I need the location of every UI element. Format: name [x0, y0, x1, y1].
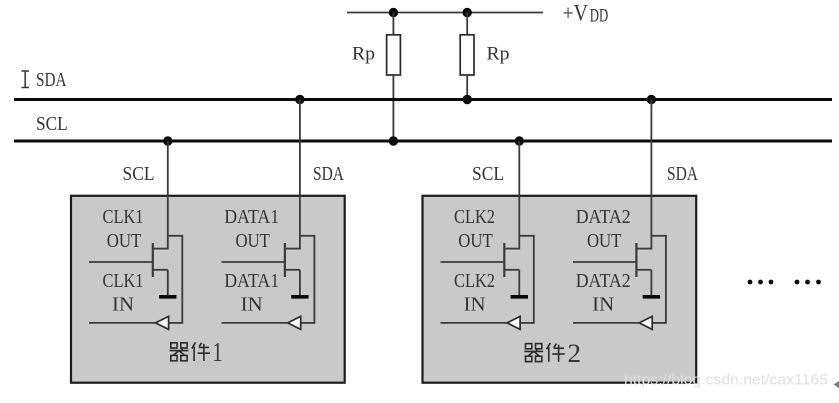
svg-text:CLK2: CLK2: [454, 207, 495, 228]
wire: CLK1 IN lead: [89, 322, 156, 324]
svg-text:IN: IN: [241, 294, 263, 315]
svg-text:CLK2: CLK2: [454, 271, 495, 292]
label CLK1 IN: [103, 271, 144, 316]
buffer U (DATA2 IN receiver triangle): [639, 316, 652, 329]
device box 器件1: [71, 196, 345, 383]
label DATA1 OUT: [224, 207, 279, 252]
wire: rail to buffer input (CLK2): [520, 322, 535, 324]
wire: input-buffer right rail (DATA2): [665, 235, 667, 323]
transistor Q (CLK2 open-drain MOSFET): [504, 243, 519, 295]
wire: SDA bus drop to DATA2 transistor drain: [650, 100, 652, 250]
label CLK2 OUT: [454, 207, 495, 252]
svg-text:SDA: SDA: [667, 164, 698, 185]
wire: drain stub to input-buffer rail (DATA1): [300, 235, 315, 237]
label DATA2 IN: [576, 271, 631, 316]
svg-text:SDA: SDA: [313, 164, 344, 185]
wire: rail to buffer input (DATA2): [652, 322, 667, 324]
resistor Rp (right, pull-up for SDA): [460, 35, 474, 75]
transistor Q (DATA2 open-drain MOSFET): [636, 243, 651, 295]
svg-text:IN: IN: [464, 294, 486, 315]
watermark cursor arrow: [834, 381, 839, 388]
ground symbol (CLK1 source): [159, 295, 176, 299]
buffer U (CLK2 IN receiver triangle): [507, 316, 520, 329]
wire: DATA1 OUT gate lead: [222, 261, 285, 263]
svg-text:2: 2: [568, 339, 582, 368]
wire: DATA2 OUT gate lead: [573, 261, 636, 263]
svg-text:SDA: SDA: [36, 69, 67, 91]
node: junction dot VDD / Rp left: [389, 8, 398, 17]
transistor Q (CLK1 open-drain MOSFET): [153, 243, 168, 295]
label DATA1 IN: [224, 271, 279, 316]
node: junction dot SDA / DATA1 drop: [295, 95, 304, 104]
wire: SCL bus drop to CLK2 transistor drain: [518, 141, 520, 250]
wire: drain stub to input-buffer rail (CLK1): [168, 235, 183, 237]
svg-text:https://blog.csdn.net/cax1165: https://blog.csdn.net/cax1165: [624, 373, 828, 389]
wire: SDA bus drop to DATA1 transistor drain: [299, 100, 301, 250]
buffer U (CLK1 IN receiver triangle): [156, 316, 169, 329]
label 器件1 (device 1 name): [170, 337, 223, 367]
resistor Rp (left, pull-up for SCL): [387, 35, 401, 75]
wire: SCL bus line: [14, 140, 832, 143]
label DATA2 OUT: [576, 207, 631, 252]
ellipsis dots (more devices): [748, 280, 821, 285]
wire: DATA1 IN lead: [222, 322, 288, 324]
label CLK1 OUT: [103, 207, 144, 252]
wire: rail to buffer input (DATA1): [301, 322, 316, 324]
ground symbol (DATA1 source): [291, 295, 308, 299]
I-beam text cursor mark: [22, 71, 30, 88]
wire: CLK2 OUT gate lead: [441, 261, 505, 263]
wire: SDA bus line: [14, 98, 832, 101]
svg-text:DD: DD: [590, 6, 608, 26]
wire: rail to buffer input (CLK1): [169, 322, 184, 324]
svg-text:SCL: SCL: [123, 164, 155, 185]
svg-text:Rp: Rp: [487, 44, 510, 65]
wire: VDD to Rp right: [466, 13, 468, 36]
node: junction dot Rp-right / SDA: [463, 95, 472, 104]
svg-text:CLK1: CLK1: [103, 207, 144, 228]
svg-text:1: 1: [213, 337, 223, 367]
svg-text:DATA2: DATA2: [576, 271, 631, 292]
wire: VDD to Rp left: [392, 13, 394, 36]
ground symbol (CLK2 source): [511, 295, 528, 299]
wire: drain stub to input-buffer rail (CLK2): [519, 235, 534, 237]
wire: drain stub to input-buffer rail (DATA2): [651, 235, 666, 237]
node: junction dot SCL / CLK1 drop: [163, 136, 172, 145]
svg-text:DATA1: DATA1: [224, 207, 279, 228]
transistor Q (DATA1 open-drain MOSFET): [285, 243, 300, 295]
svg-text:DATA1: DATA1: [224, 271, 279, 292]
wire: SCL bus drop to CLK1 transistor drain: [167, 141, 169, 250]
wire: CLK2 IN lead: [441, 322, 508, 324]
svg-text:OUT: OUT: [458, 231, 493, 252]
svg-text:OUT: OUT: [107, 231, 142, 252]
svg-text:OUT: OUT: [235, 231, 270, 252]
svg-text:OUT: OUT: [587, 231, 622, 252]
wire: Rp left down to SCL bus: [392, 75, 394, 141]
wire: input-buffer right rail (DATA1): [313, 235, 315, 323]
svg-text:Rp: Rp: [352, 44, 375, 65]
svg-text:DATA2: DATA2: [576, 207, 631, 228]
svg-text:IN: IN: [112, 294, 134, 315]
node: junction dot VDD / Rp right: [463, 8, 472, 17]
node: junction dot SCL / CLK2 drop: [515, 136, 524, 145]
label 器件2 (device 2 name): [524, 339, 581, 368]
wire: input-buffer right rail (CLK1): [181, 235, 183, 323]
wire: +VDD supply rail: [347, 12, 543, 14]
svg-text:+V: +V: [563, 1, 589, 26]
svg-text:IN: IN: [592, 294, 614, 315]
ground symbol (DATA2 source): [643, 295, 660, 299]
node: junction dot SDA / DATA2 drop: [647, 95, 656, 104]
svg-text:CLK1: CLK1: [103, 271, 144, 292]
label CLK2 IN: [454, 271, 495, 316]
svg-text:SCL: SCL: [36, 113, 68, 135]
device box 器件2: [423, 196, 697, 383]
label +VDD: [563, 1, 609, 27]
wire: input-buffer right rail (CLK2): [533, 235, 535, 323]
wire: Rp right down to SDA bus: [466, 75, 468, 100]
node: junction dot Rp-left / SCL: [389, 136, 398, 145]
wire: CLK1 OUT gate lead: [89, 261, 153, 263]
buffer U (DATA1 IN receiver triangle): [288, 316, 301, 329]
wire: DATA2 IN lead: [573, 322, 639, 324]
svg-text:SCL: SCL: [472, 164, 504, 185]
